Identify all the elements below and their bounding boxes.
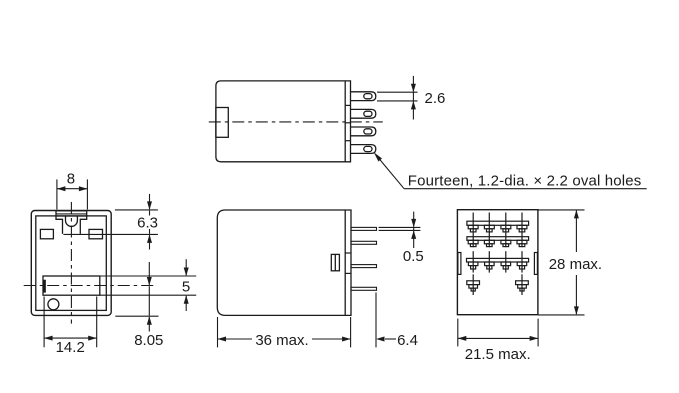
dimension 8.05 (center to bottom) — [115, 262, 163, 349]
svg-text:8.05: 8.05 — [134, 332, 163, 349]
dimension 36 max. — [218, 317, 351, 349]
vertical centerline (left view) — [70, 202, 72, 324]
terminal column 2 row 3 — [485, 251, 495, 272]
hidden pin ticks on base plate (top view) — [345, 104, 350, 106]
terminal column 1 row 3 — [468, 251, 478, 272]
outer case (left view) — [31, 211, 111, 316]
svg-text:5: 5 — [182, 279, 190, 296]
terminal column 3 rows 1-2 — [501, 213, 511, 248]
leader: Fourteen, 1.2-dia. x 2.2 oval holes — [374, 152, 647, 189]
side latch notch (top view) — [216, 108, 228, 138]
svg-text:8: 8 — [67, 171, 75, 188]
pin blade 3 (top view) — [351, 127, 376, 136]
pin 3 (middle view) — [351, 265, 377, 268]
relay body (top view) — [216, 81, 351, 162]
terminal column 4 rows 1-2 — [517, 213, 527, 248]
terminal column 1 rows 1-2 — [468, 213, 478, 248]
oval hole in pin 4 — [364, 146, 372, 151]
pin blade 2 (top view) — [351, 109, 376, 118]
pin 4 (middle view) — [351, 287, 377, 290]
terminal row 1 bar — [467, 221, 529, 225]
pin 2 (middle view) — [351, 241, 377, 244]
left side notch — [458, 253, 461, 275]
coil terminal 2 row 4 — [516, 274, 529, 295]
svg-text:6.3: 6.3 — [137, 215, 158, 232]
terminal row 3 bar — [467, 258, 529, 262]
dimension 0.5 (pin thickness) — [379, 212, 424, 265]
dimension 6.3 — [63, 194, 158, 250]
horizontal centerline (left view) — [24, 285, 157, 287]
inner case line (left view) — [36, 216, 107, 311]
svg-text:0.5: 0.5 — [403, 248, 424, 265]
left window cutout — [40, 229, 53, 238]
hidden pin ticks (middle view) — [345, 252, 351, 254]
top latch tab — [56, 211, 87, 234]
mounting slot (lower rect) — [43, 276, 100, 295]
terminal row 2 bar — [467, 237, 529, 241]
dimension 28 max. — [538, 210, 602, 315]
dimension 21.5 max. — [458, 319, 538, 363]
svg-text:36 max.: 36 max. — [255, 332, 308, 349]
dimension 5 (slot height) — [100, 259, 196, 311]
pin blade 4 (top view) — [351, 145, 376, 154]
oval hole in pin 2 — [364, 111, 372, 116]
indicator circle — [48, 299, 59, 310]
svg-text:14.2: 14.2 — [56, 339, 85, 356]
svg-text:2.6: 2.6 — [425, 90, 446, 107]
oval hole in pin 3 — [364, 129, 372, 134]
oval hole in pin 1 — [364, 94, 372, 99]
svg-text:6.4: 6.4 — [397, 332, 418, 349]
terminal column 3 row 3 — [501, 251, 511, 272]
terminal column 2 rows 1-2 — [484, 213, 494, 248]
case outline (bottom view) — [457, 210, 538, 315]
coil terminal 1 row 4 — [467, 274, 480, 295]
dimension 8 (tab width) — [57, 171, 88, 210]
svg-text:21.5 max.: 21.5 max. — [465, 346, 531, 363]
relay body (middle view) — [217, 210, 351, 315]
pin 1 (middle view) — [351, 227, 377, 230]
pin blade 1 (top view) — [351, 92, 376, 101]
dimension 2.6 (pin pitch offset) — [377, 76, 445, 120]
right window cutout — [89, 229, 103, 238]
slot end block (filled) — [43, 280, 45, 292]
centerline (top view) — [209, 121, 383, 123]
terminal column 4 row 3 — [517, 251, 527, 272]
svg-text:28 max.: 28 max. — [549, 256, 602, 273]
dimension 6.4 — [376, 293, 418, 349]
marking window small rect — [331, 254, 339, 270]
dimension 14.2 (slot width) — [44, 297, 97, 356]
svg-text:Fourteen, 1.2-dia. × 2.2 oval: Fourteen, 1.2-dia. × 2.2 oval holes — [408, 172, 642, 189]
right side notch — [534, 253, 537, 275]
